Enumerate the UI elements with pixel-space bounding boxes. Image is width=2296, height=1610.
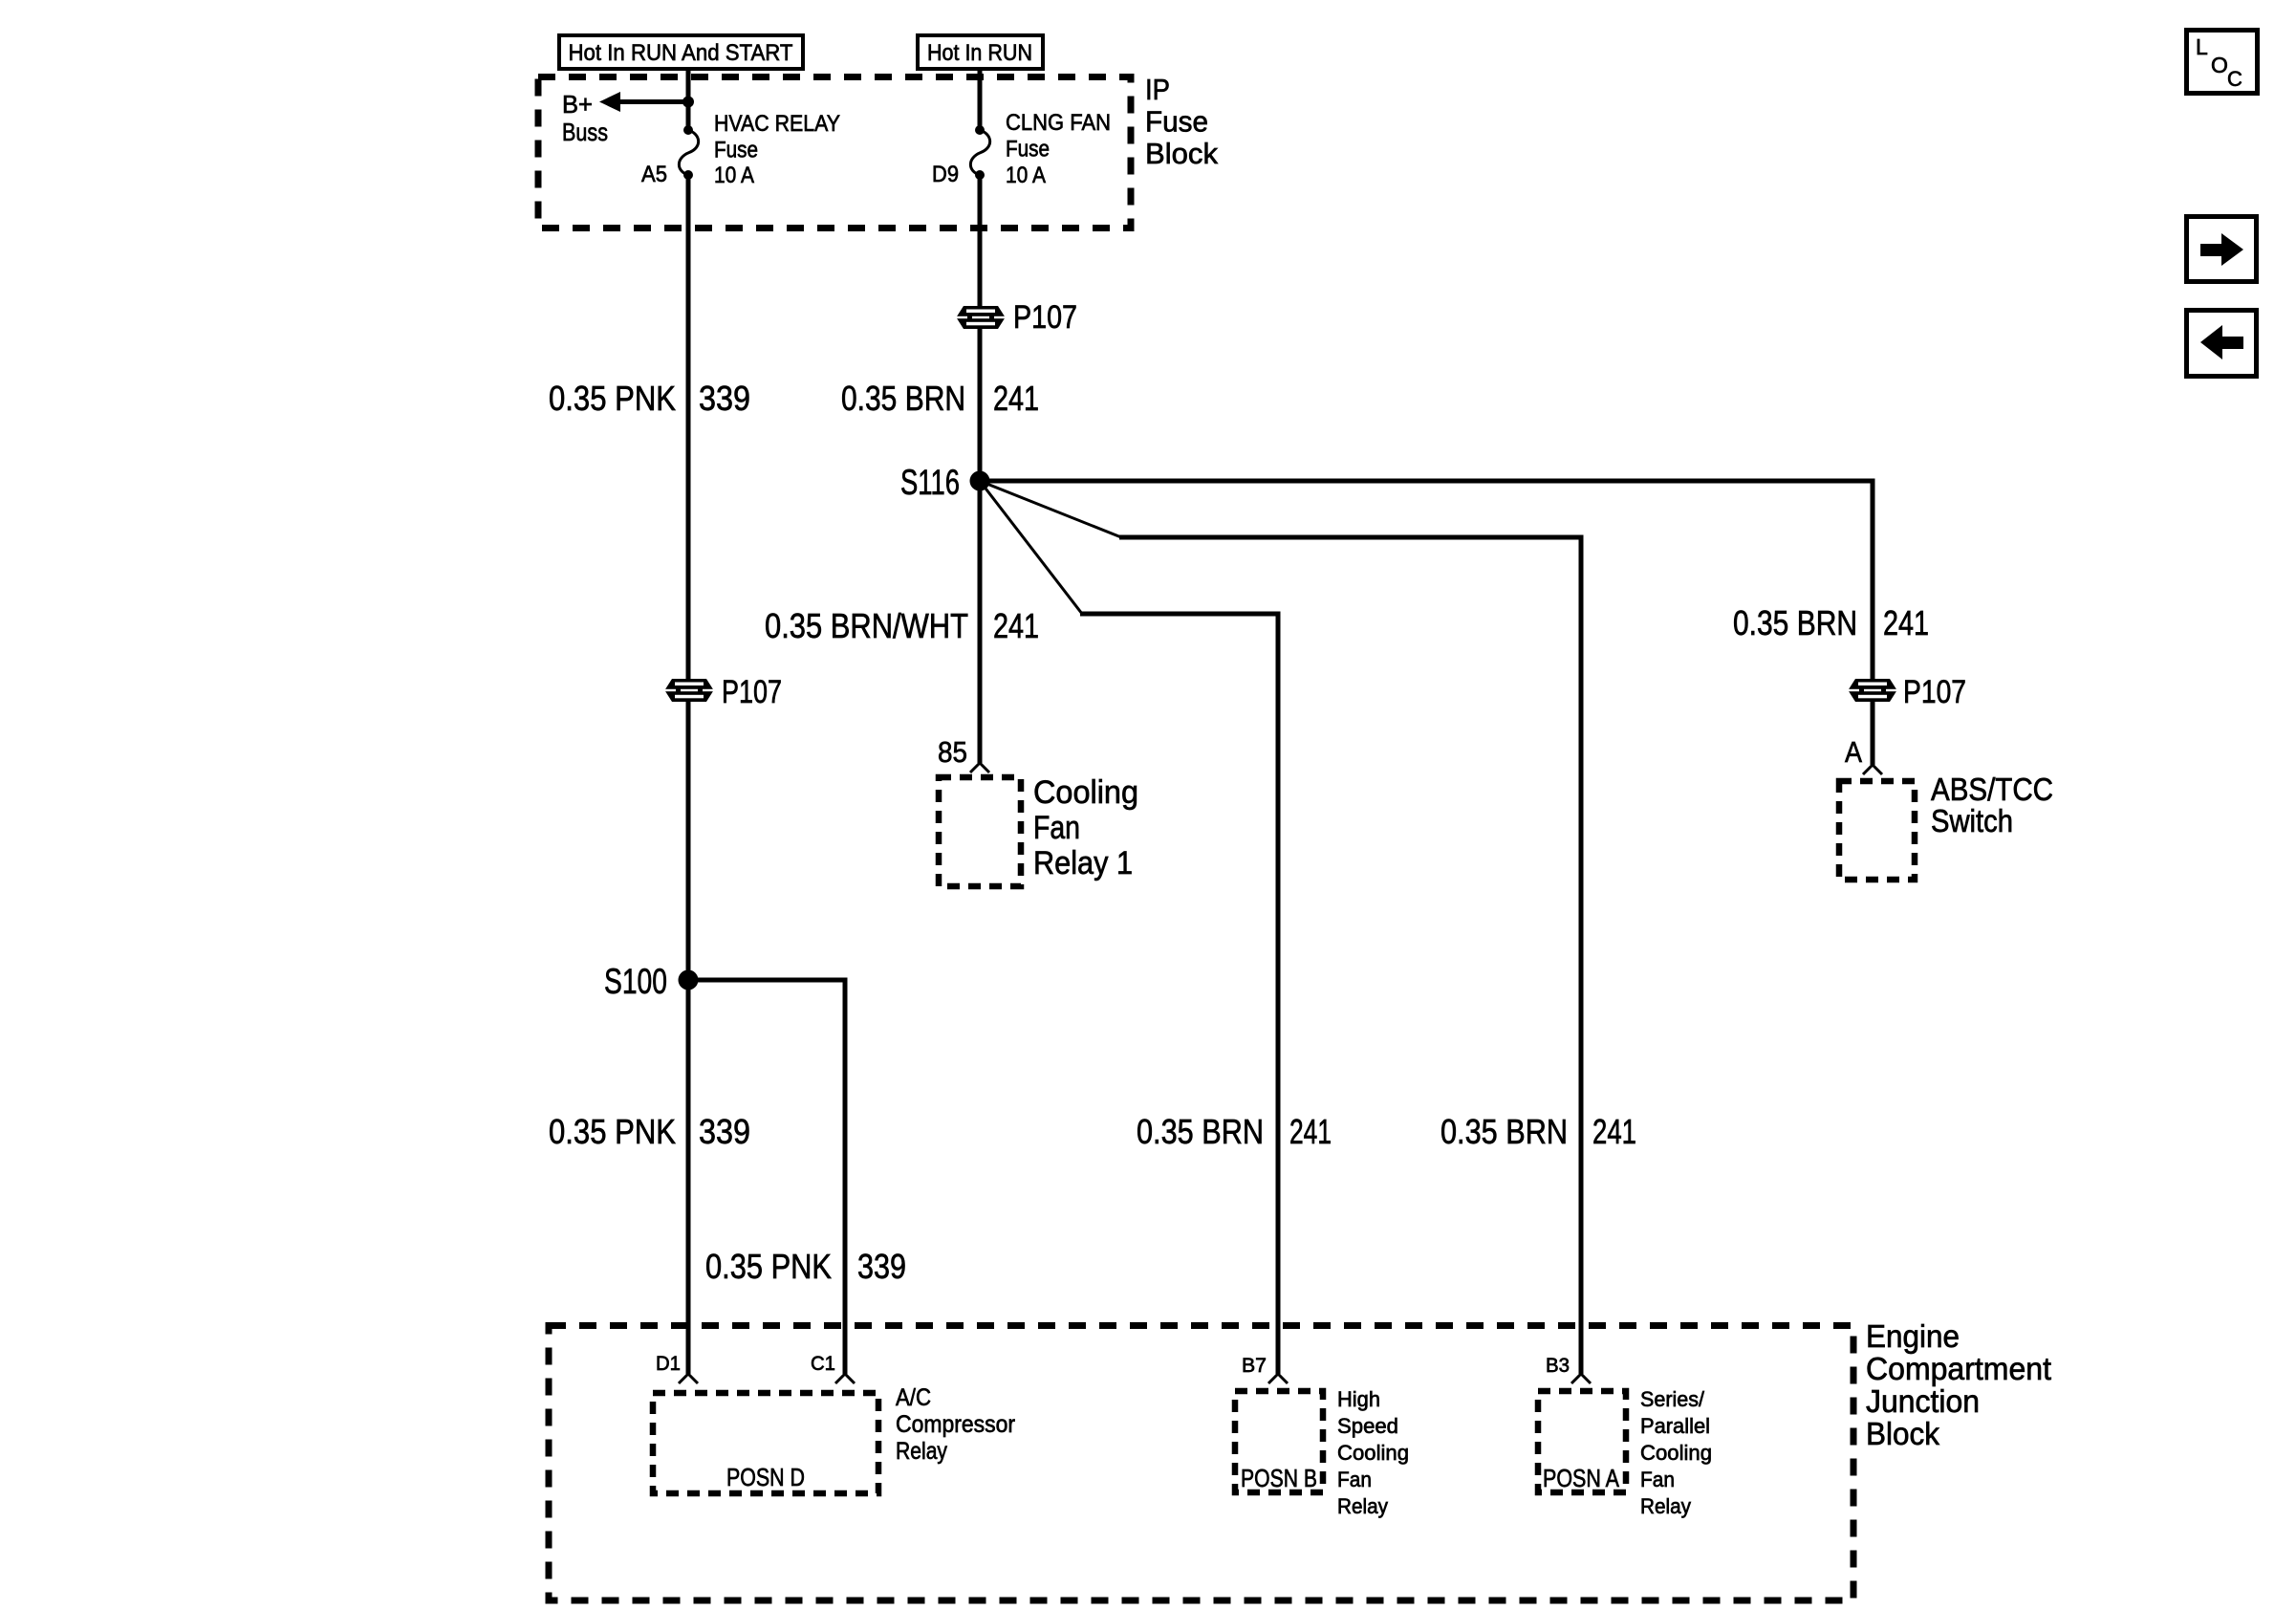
wire P107 left to S100 [686, 699, 691, 980]
svg-text:Engine: Engine [1866, 1318, 1960, 1354]
svg-text:Relay: Relay [1337, 1494, 1388, 1518]
forward arrow box [2187, 217, 2257, 282]
svg-text:Block: Block [1145, 137, 1218, 170]
pin 85 [938, 735, 989, 772]
svg-text:POSN A: POSN A [1543, 1464, 1620, 1492]
svg-text:POSN B: POSN B [1241, 1464, 1317, 1492]
label Engine Compartment Junction Block [1866, 1318, 2051, 1451]
svg-text:Hot In RUN And START: Hot In RUN And START [569, 40, 793, 66]
svg-text:Fuse: Fuse [714, 138, 758, 163]
inline connector P107 left [665, 674, 782, 710]
svg-text:B7: B7 [1242, 1355, 1267, 1377]
wire header box 2 to fuse D9 [978, 71, 983, 131]
svg-text:Fan: Fan [1640, 1468, 1675, 1491]
svg-text:Block: Block [1866, 1416, 1939, 1451]
svg-text:339: 339 [857, 1247, 906, 1286]
wire label 0.35 BRN 241 for B3 [1440, 1112, 1636, 1151]
svg-text:Buss: Buss [562, 118, 608, 146]
svg-text:Fan: Fan [1033, 810, 1080, 846]
wire fuse A5 down to P107 left [686, 175, 691, 682]
wire label 0.35 PNK 339 branch [705, 1247, 906, 1286]
svg-text:10 A: 10 A [1006, 163, 1046, 188]
svg-text:241: 241 [993, 606, 1039, 645]
svg-text:HVAC RELAY: HVAC RELAY [714, 111, 840, 137]
wire header box 1 to fuse A5 [686, 71, 691, 131]
svg-text:10 A: 10 A [714, 163, 754, 188]
wire label 0.35 BRN/WHT 241 [765, 606, 1039, 645]
svg-text:0.35 BRN: 0.35 BRN [841, 379, 965, 418]
svg-text:P107: P107 [722, 674, 782, 710]
svg-text:O: O [2211, 53, 2228, 77]
svg-text:339: 339 [699, 1112, 750, 1151]
svg-text:241: 241 [1289, 1112, 1332, 1151]
wire S116 branch to pin B3 [980, 481, 1581, 1374]
svg-text:Cooling: Cooling [1033, 774, 1138, 811]
svg-text:Relay: Relay [1640, 1494, 1691, 1518]
IP Fuse Block dashed box [538, 77, 1131, 228]
component High Speed Cooling Fan Relay POSN B [1235, 1387, 1409, 1518]
svg-text:Speed: Speed [1337, 1414, 1398, 1438]
svg-text:D1: D1 [656, 1353, 681, 1375]
wire label 0.35 PNK 339 lower left [549, 1112, 750, 1151]
svg-text:0.35 BRN: 0.35 BRN [1733, 603, 1857, 642]
svg-text:Fuse: Fuse [1145, 105, 1208, 139]
fuse A5 HVAC RELAY Fuse 10 A [641, 111, 840, 188]
svg-text:241: 241 [993, 379, 1039, 418]
pin B3 [1546, 1355, 1591, 1383]
node S100 [604, 962, 699, 1001]
svg-text:P107: P107 [1013, 299, 1077, 336]
wire S100 to pin D1 [686, 980, 691, 1374]
svg-text:Junction: Junction [1866, 1383, 1980, 1419]
wire label 0.35 PNK 339 top [549, 379, 750, 418]
svg-text:339: 339 [699, 379, 750, 418]
svg-text:Compartment: Compartment [1866, 1351, 2051, 1386]
svg-text:POSN D: POSN D [726, 1463, 805, 1491]
svg-text:B+: B+ [562, 90, 593, 119]
pin A [1845, 735, 1882, 774]
component ABS/TCC Switch [1839, 772, 2053, 880]
wire P107 top to S116 [978, 328, 983, 481]
svg-text:0.35 BRN: 0.35 BRN [1440, 1112, 1568, 1151]
Engine Compartment Junction Block dashed box [549, 1326, 1853, 1601]
svg-text:Parallel: Parallel [1640, 1414, 1710, 1438]
pin D1 [656, 1353, 698, 1383]
pin C1 [811, 1353, 855, 1383]
LOC icon box [2187, 31, 2258, 94]
node S116 [900, 463, 990, 502]
svg-text:Cooling: Cooling [1640, 1441, 1712, 1465]
svg-text:A/C: A/C [896, 1384, 931, 1411]
header box Hot In RUN [918, 35, 1043, 69]
svg-text:S100: S100 [604, 962, 667, 1001]
wire S116 branch to pin B7 [980, 481, 1278, 1374]
inline connector P107 right [1849, 674, 1966, 710]
svg-text:0.35 BRN: 0.35 BRN [1137, 1112, 1264, 1151]
svg-text:Series/: Series/ [1640, 1387, 1705, 1411]
svg-text:Hot In RUN: Hot In RUN [927, 40, 1032, 66]
fuse D9 CLNG FAN Fuse 10 A [932, 110, 1111, 188]
wire fuse D9 down to P107 top [978, 175, 983, 307]
svg-text:0.35 PNK: 0.35 PNK [705, 1247, 832, 1286]
pin B7 [1242, 1355, 1288, 1383]
svg-text:High: High [1337, 1387, 1380, 1411]
svg-text:A5: A5 [641, 162, 667, 187]
svg-text:Fuse: Fuse [1006, 137, 1050, 163]
svg-text:0.35 BRN/WHT: 0.35 BRN/WHT [765, 606, 968, 645]
svg-text:C1: C1 [811, 1353, 835, 1375]
svg-text:A: A [1845, 735, 1862, 769]
wire P107 right to pin A [1871, 699, 1875, 765]
svg-text:0.35 PNK: 0.35 PNK [549, 379, 676, 418]
wire S116 to ABS TCC switch [980, 481, 1873, 682]
svg-text:B3: B3 [1546, 1355, 1570, 1377]
svg-text:241: 241 [1592, 1112, 1636, 1151]
svg-text:P107: P107 [1903, 674, 1966, 710]
svg-text:Relay: Relay [896, 1438, 947, 1465]
svg-text:ABS/TCC: ABS/TCC [1931, 772, 2053, 807]
svg-text:Cooling: Cooling [1337, 1441, 1409, 1465]
svg-text:85: 85 [938, 735, 967, 769]
svg-text:0.35 PNK: 0.35 PNK [549, 1112, 676, 1151]
component Series/Parallel Cooling Fan Relay POSN A [1538, 1387, 1712, 1518]
svg-text:IP: IP [1145, 73, 1170, 106]
label IP Fuse Block [1145, 73, 1218, 170]
component Cooling Fan Relay 1 [939, 774, 1138, 886]
svg-text:S116: S116 [900, 463, 960, 502]
node B+ junction [682, 97, 694, 108]
svg-text:CLNG FAN: CLNG FAN [1006, 110, 1111, 136]
wire S100 branch to pin C1 [688, 980, 845, 1374]
svg-text:L: L [2196, 34, 2208, 59]
component A/C Compressor Relay POSN D [653, 1384, 1015, 1493]
svg-text:241: 241 [1883, 603, 1929, 642]
header box Hot In RUN And START [559, 35, 803, 69]
svg-text:Relay 1: Relay 1 [1033, 845, 1133, 881]
B+ Buss arrow [562, 90, 690, 146]
svg-text:C: C [2227, 67, 2242, 91]
svg-text:Compressor: Compressor [896, 1411, 1015, 1438]
back arrow box [2187, 311, 2257, 377]
svg-text:Switch: Switch [1931, 803, 2013, 838]
wire label 0.35 BRN 241 for B7 [1137, 1112, 1332, 1151]
svg-text:D9: D9 [932, 162, 959, 187]
svg-text:Fan: Fan [1337, 1468, 1372, 1491]
inline connector P107 top [957, 299, 1077, 336]
wire S116 to cooling fan relay pin 85 [978, 481, 983, 763]
wire label 0.35 BRN 241 right [1733, 603, 1929, 642]
wire label 0.35 BRN 241 top [841, 379, 1039, 418]
